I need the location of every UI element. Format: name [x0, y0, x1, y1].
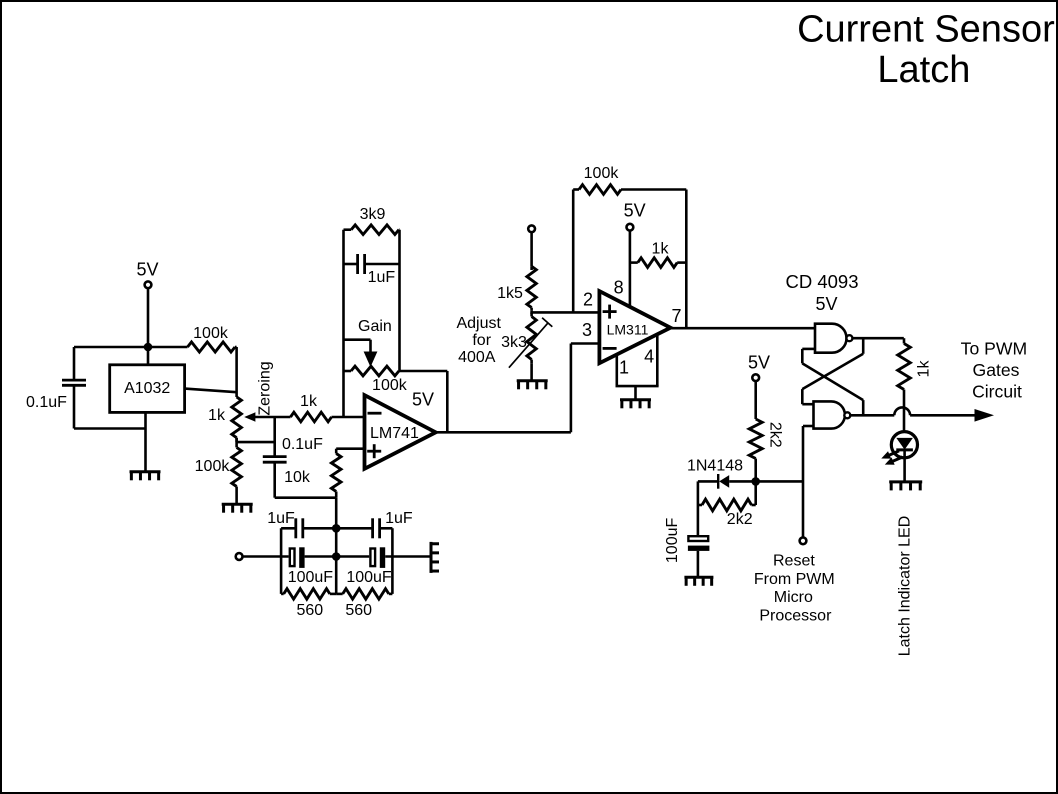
svg-text:1k: 1k	[208, 407, 226, 424]
LED light arrows	[881, 451, 902, 465]
svg-text:5V: 5V	[136, 260, 158, 280]
wire (terminal to C5)	[242, 555, 288, 558]
wire (feedback right rail)	[398, 230, 401, 371]
pin 1 label	[619, 358, 629, 378]
wire (pot bottom terminal to wiper net)	[237, 441, 275, 444]
svg-text:10k: 10k	[284, 469, 311, 486]
nand gate U4a (top)	[815, 324, 852, 353]
wire (C5 to C6)	[305, 555, 370, 558]
svg-text:5V: 5V	[748, 353, 770, 373]
svg-text:1k5: 1k5	[497, 285, 523, 302]
wire (C2 to 10k bottom node)	[275, 462, 337, 498]
wire (R1 to zeroing pot top)	[235, 347, 238, 397]
wire (output up to LM311 pin3)	[570, 344, 573, 433]
power 5V terminal (reset)	[748, 353, 770, 416]
resistor R2 100k (pot to ground)	[195, 438, 242, 504]
resistor R7 3k9 (feedback)	[344, 206, 400, 235]
resistor R3 1k (to LM741 inverting input)	[291, 393, 365, 422]
wire (3k3 to ground)	[530, 363, 533, 380]
wire (diode node to reset line)	[756, 480, 803, 483]
wire (VR2 right to LM741 output)	[400, 371, 448, 432]
ground (under R2)	[222, 504, 253, 513]
svg-text:0.1uF: 0.1uF	[26, 394, 67, 411]
svg-text:100k: 100k	[195, 458, 231, 475]
ground (under 3k3)	[517, 381, 548, 390]
svg-text:3k3: 3k3	[501, 334, 527, 351]
svg-text:LM741: LM741	[370, 425, 419, 442]
wiper arrow of VR2 Gain	[344, 340, 378, 367]
resistor R13 2k2 (vertical)	[749, 415, 783, 481]
wire (A1032 output to pot top rail)	[185, 389, 237, 393]
power 5V terminal (left)	[136, 260, 158, 347]
wire (reset line)	[803, 426, 814, 537]
svg-text:CD 4093: CD 4093	[785, 271, 858, 292]
LED D2 latch indicator	[891, 432, 917, 458]
resistor R1 100k (5V to zeroing pot)	[148, 325, 237, 352]
svg-text:4: 4	[644, 346, 654, 366]
wire (divider junction to LM311 pin2)	[532, 311, 600, 314]
wire (cross-couple: U4b out to U4a input)	[802, 349, 863, 415]
capacitor C7 1uF (feedback)	[344, 254, 400, 286]
wire (filter middle rail)	[335, 528, 338, 594]
wire hop (output over LED line)	[894, 407, 910, 415]
svg-text:2k2: 2k2	[767, 422, 784, 448]
svg-text:5V: 5V	[624, 201, 646, 221]
resistor R10 100k (LM311 feedback)	[573, 165, 686, 194]
capacitor C4 1uF	[373, 510, 413, 538]
wire (node A to bypass cap)	[74, 347, 148, 380]
resistor R14 2k2 (horizontal)	[698, 499, 756, 528]
junction dot (middle row)	[332, 552, 341, 561]
wire (filter top row)	[281, 527, 296, 530]
wire (cross-couple: U4a out to U4b input)	[802, 338, 863, 404]
svg-text:Reset: Reset	[773, 553, 815, 570]
wire (10k node down to filter network)	[335, 498, 338, 529]
label Reset From PWM Micro Processor	[754, 553, 835, 625]
resistor R5 560	[281, 589, 336, 619]
wire (terminal to 1k5)	[530, 232, 533, 266]
resistor R8 1k5	[497, 266, 536, 310]
wire (filter right rail)	[391, 528, 394, 594]
label CD 4093	[785, 271, 858, 292]
wire (R14 right up to diode node)	[754, 481, 757, 505]
diode D1 1N4148	[687, 458, 756, 489]
svg-text:Gain: Gain	[358, 318, 392, 335]
svg-text:7: 7	[671, 306, 681, 326]
potentiometer VR2 100k Gain	[344, 366, 408, 394]
capacitor C5 100uF electrolytic	[288, 547, 334, 586]
op-amp U2 LM741	[365, 395, 436, 469]
svg-text:8: 8	[614, 278, 624, 298]
svg-text:0.1uF: 0.1uF	[282, 436, 323, 453]
svg-text:2k2: 2k2	[727, 511, 753, 528]
svg-text:Adjust: Adjust	[456, 315, 501, 332]
ground (under LM311)	[620, 400, 651, 409]
reset terminal (open circle)	[800, 537, 807, 544]
label 5V (LM741 supply)	[412, 390, 434, 410]
ground (filter, sideways)	[431, 542, 439, 573]
wire (U4a output to R12)	[852, 337, 903, 340]
svg-text:1uF: 1uF	[385, 510, 413, 527]
nand gate U4b (bottom)	[814, 401, 851, 428]
ground (under LED)	[889, 482, 922, 491]
svg-text:100uF: 100uF	[664, 517, 681, 563]
resistor R4 10k (LM741 + input)	[284, 449, 364, 498]
potentiometer VR1 1k Zeroing	[208, 361, 274, 442]
sensor U1 A1032	[110, 365, 185, 413]
junction dot node A (5V rail at A1032)	[144, 343, 153, 352]
svg-text:1k: 1k	[652, 241, 670, 258]
svg-text:560: 560	[296, 602, 323, 619]
svg-text:560: 560	[345, 602, 372, 619]
wire (bypass cap to A1032 ground lead)	[74, 385, 146, 428]
svg-text:100uF: 100uF	[346, 569, 392, 586]
pin 2 label	[583, 290, 593, 310]
capacitor C6 100uF electrolytic	[346, 547, 392, 586]
wire (LED to ground)	[903, 458, 906, 481]
svg-text:100k: 100k	[584, 165, 620, 182]
label 5V (CD4093 supply)	[815, 294, 837, 314]
wire (R12 to LED)	[903, 408, 906, 439]
pin 7 label	[671, 306, 681, 326]
label Gain	[358, 318, 392, 335]
svg-text:3: 3	[582, 320, 592, 340]
capacitor C2 0.1uF	[263, 436, 323, 462]
svg-text:1: 1	[619, 358, 629, 378]
svg-text:100k: 100k	[193, 325, 229, 342]
svg-text:From PWM: From PWM	[754, 571, 835, 588]
wire (wiper net down to C2)	[273, 417, 276, 456]
svg-text:400A: 400A	[458, 349, 496, 366]
label Adjust for 400A	[456, 315, 501, 366]
wire (C4 to right rail)	[380, 527, 393, 530]
wire (C6 to ground)	[385, 555, 430, 558]
svg-text:Current Sensor: Current Sensor	[797, 9, 1055, 51]
power 5V terminal (LM311)	[624, 201, 646, 307]
wire (filter left rail)	[280, 528, 283, 594]
wire (LM311 feedback left rail)	[572, 190, 575, 313]
svg-text:Latch Indicator LED: Latch Indicator LED	[897, 516, 914, 657]
svg-text:2: 2	[583, 290, 593, 310]
resistor R12 1k (LED)	[898, 338, 933, 407]
svg-text:Micro: Micro	[774, 589, 813, 606]
svg-text:Circuit: Circuit	[972, 382, 1022, 402]
wire (pin1 pin4 to ground bus)	[616, 334, 659, 399]
comparator U3 LM311	[599, 291, 670, 363]
svg-text:1uF: 1uF	[267, 510, 295, 527]
pin 4 label	[644, 346, 654, 366]
wire (to PWM arrow)	[910, 409, 994, 422]
svg-text:1k: 1k	[300, 393, 318, 410]
capacitor C3 1uF	[267, 510, 303, 538]
wire (C8 to ground)	[697, 551, 700, 577]
ground (under A1032)	[130, 472, 161, 481]
capacitor C1 0.1uF (A1032 bypass)	[26, 380, 86, 411]
input terminal (filter, open circle)	[236, 553, 243, 560]
label To PWM Gates Circuit	[961, 339, 1027, 402]
resistor R11 1k (pull-up)	[630, 241, 686, 268]
svg-text:To PWM: To PWM	[961, 339, 1027, 359]
wire (LM311 output to latch)	[671, 327, 816, 330]
resistor R9 3k3 (adjustable)	[501, 312, 552, 367]
wire (A1032 bottom pin to ground)	[144, 412, 147, 471]
wire (pin3 input)	[571, 342, 600, 345]
wire (node A into A1032 top pin)	[147, 347, 150, 365]
junction dot (diode node)	[751, 477, 760, 486]
wiper arrow of VR1	[244, 412, 290, 421]
svg-text:100k: 100k	[372, 377, 408, 394]
ground (under C8)	[684, 577, 713, 586]
wire (U4b output)	[850, 414, 894, 417]
svg-text:A1032: A1032	[124, 380, 170, 397]
svg-text:Latch: Latch	[877, 49, 970, 91]
svg-text:100uF: 100uF	[288, 569, 334, 586]
svg-text:1N4148: 1N4148	[687, 458, 743, 475]
wire (feedback left rail)	[342, 230, 345, 417]
svg-text:for: for	[472, 332, 491, 349]
title Current Sensor Latch	[797, 9, 1055, 92]
svg-text:1k: 1k	[916, 360, 933, 378]
wire (C3 to C4)	[303, 527, 373, 530]
wire (LM741 output)	[436, 431, 571, 434]
svg-text:Gates: Gates	[973, 360, 1020, 380]
svg-text:Zeroing: Zeroing	[257, 361, 274, 415]
capacitor C8 100uF electrolytic	[664, 517, 709, 563]
pin 3 label	[582, 320, 592, 340]
svg-text:5V: 5V	[412, 390, 434, 410]
junction dot (top row)	[332, 524, 341, 533]
wire (LM311 feedback right rail)	[685, 190, 688, 329]
svg-text:Processor: Processor	[759, 607, 832, 624]
svg-text:1uF: 1uF	[368, 269, 396, 286]
input terminal (1k5 top, open circle)	[528, 225, 535, 232]
wire (diode node down-left)	[697, 481, 700, 535]
svg-text:5V: 5V	[815, 294, 837, 314]
resistor R6 560	[336, 589, 392, 619]
svg-text:3k9: 3k9	[360, 206, 386, 223]
pin 8 label	[614, 278, 624, 298]
label Latch Indicator LED	[897, 516, 914, 657]
svg-text:LM311: LM311	[607, 322, 649, 338]
